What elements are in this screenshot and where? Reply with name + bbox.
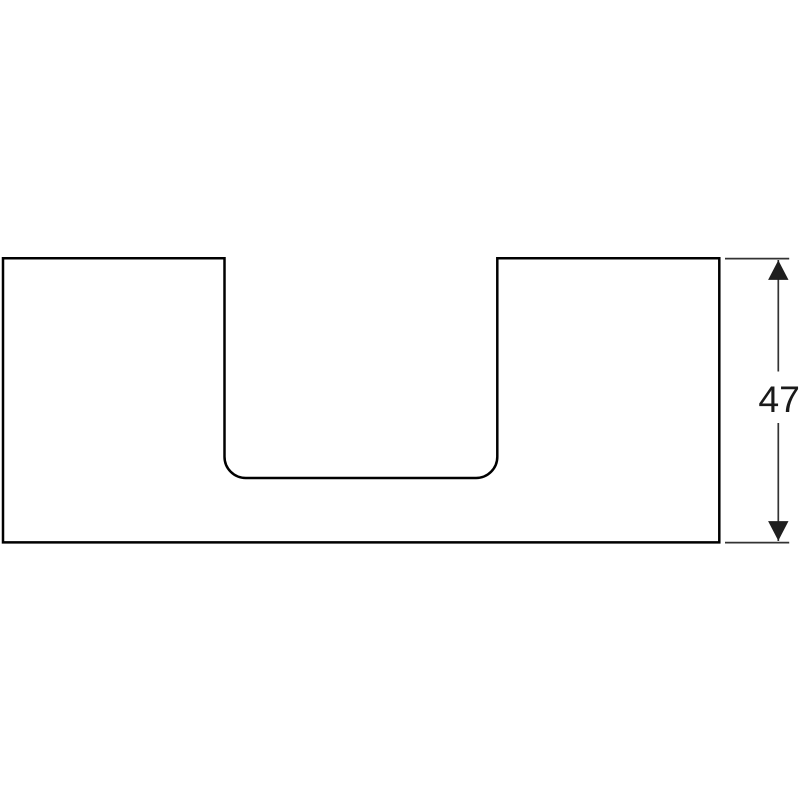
svg-text:47: 47 (758, 378, 800, 420)
